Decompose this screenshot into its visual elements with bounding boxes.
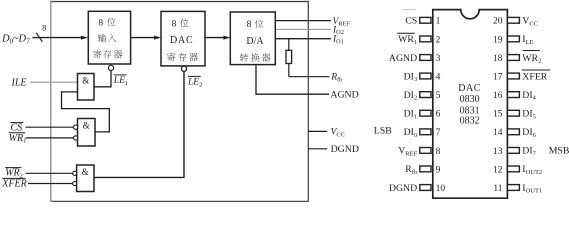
wire input register to DAC register [131,37,155,39]
LE1 bubble at input register [108,65,113,70]
svg-text:8: 8 [98,18,103,28]
wire VREF output [276,20,331,22]
svg-text:15: 15 [493,110,503,120]
label WR1 (active low) [9,133,27,145]
svg-text:MSB: MSB [549,146,569,157]
AND gate G3 (WR2, XFER) [73,165,94,192]
D/A converter U3 box 8位D/A转换器 [230,12,275,65]
label LE2 [187,76,202,88]
pin 4 (DI3) [404,71,441,83]
wire G3 output to LE2 bubble [94,71,184,177]
label LE1 [113,75,128,87]
wire G1 output to LE1 bubble [94,70,111,87]
svg-text:CS: CS [405,16,417,27]
pin 13 (DI7 (MSB)) [493,146,569,158]
svg-text:DGND: DGND [331,144,359,155]
wire DAC register to D/A converter [205,37,224,39]
svg-text:2: 2 [436,35,441,45]
pin 1 (CS) [403,10,441,27]
feedback resistor Rfb (vertical) [286,39,292,77]
svg-text:17: 17 [493,72,503,82]
svg-text:DGND: DGND [389,183,417,194]
svg-text:1: 1 [436,17,441,27]
svg-text:0830: 0830 [460,94,480,105]
svg-text:D/A: D/A [246,36,264,47]
svg-text:16: 16 [493,91,503,101]
svg-text:3: 3 [436,54,441,64]
label WR2 (active low) [5,168,23,180]
label XFER (active low) [1,178,26,189]
wire AGND from D/A converter [256,66,329,95]
svg-text:18: 18 [493,54,503,64]
svg-text:D0~D7: D0~D7 [1,34,30,46]
arrowhead into input register [81,36,88,40]
wire DGND stub [308,148,327,150]
wire IO2 output [276,28,331,30]
LE2 bubble at DAC register [181,66,186,71]
svg-text:XFER: XFER [522,71,548,82]
pin 20 (VCC) [493,16,538,28]
DIP-20 package body DAC0830/0831/0832 [433,10,508,199]
wire ILE to gate G1 [30,81,78,83]
pin 6 (DI1) [404,109,441,121]
svg-text:7: 7 [436,128,441,138]
svg-text:0832: 0832 [460,116,480,127]
svg-text:6: 6 [436,110,441,120]
wire data bus into input register with 8-bit slash [33,33,82,42]
svg-text:13: 13 [493,147,503,157]
pin 9 (Rfb) [405,164,440,176]
svg-text:19: 19 [493,35,503,45]
pin 16 (DI4) [493,90,537,102]
wire IO1 output [276,38,331,40]
pin 15 (DI5) [493,109,536,121]
outer box [51,2,309,202]
pin 14 (DI6) [493,127,537,139]
AND gate G2 (CS, WR1) [74,119,96,147]
svg-text:&: & [83,120,90,130]
svg-text:8: 8 [436,147,441,157]
svg-text:DAC: DAC [458,83,481,94]
pin 5 (DI2) [404,90,441,102]
pin 12 (IOUT2) [493,164,542,176]
label CS (active low) [11,123,24,134]
node D0~D7 data input label [1,34,30,46]
svg-text:XFER: XFER [1,179,26,190]
AND gate G1 (ILE) [78,74,95,101]
svg-text:&: & [82,167,89,177]
pin 2 (WR1) [397,33,440,46]
svg-text:9: 9 [436,165,441,175]
pin 11 (IOUT1) [493,183,542,195]
svg-text:8: 8 [42,22,46,32]
svg-text:5: 5 [436,91,441,101]
svg-text:AGND: AGND [389,53,417,64]
wire CS to gate G2 [26,126,74,128]
wire G2 output to G1 input [62,92,110,132]
wire WR2 to gate G3 [26,172,73,174]
svg-text:14: 14 [493,128,503,138]
svg-text:8: 8 [247,20,252,30]
pin 8 (VREF) [398,146,440,158]
svg-text:12: 12 [493,165,503,175]
pin 3 (AGND) [389,53,441,64]
wire XFER to gate G3 [28,183,73,185]
arrowhead into D/A converter [223,36,230,40]
svg-text:ILE: ILE [11,77,27,88]
DAC register U2 box 8位DAC寄存器 [161,11,205,66]
svg-text:20: 20 [493,17,503,27]
arrowhead into DAC register [154,36,161,40]
part number DAC 0830 0831 0832 [458,83,481,126]
pin 18 (WR2) [493,51,541,65]
svg-text:8: 8 [172,19,177,29]
pin 17 (XFER) [493,70,550,82]
svg-text:4: 4 [436,72,441,82]
input register U1 box 8位输入寄存器 [88,11,130,64]
svg-text:AGND: AGND [330,89,358,100]
svg-text:11: 11 [493,184,502,194]
svg-text:LSB: LSB [374,125,392,136]
pin 7 (DI0 (LSB)) [374,125,441,139]
svg-text:&: & [82,75,89,85]
svg-text:DAC: DAC [170,35,194,46]
wire VCC stub [308,130,327,132]
wire Rfb to pin [289,76,330,78]
pin 19 (ILE) [493,34,534,46]
svg-text:10: 10 [436,184,446,194]
wire WR1 to gate G2 [26,137,74,139]
pin 10 (DGND) [389,183,445,194]
